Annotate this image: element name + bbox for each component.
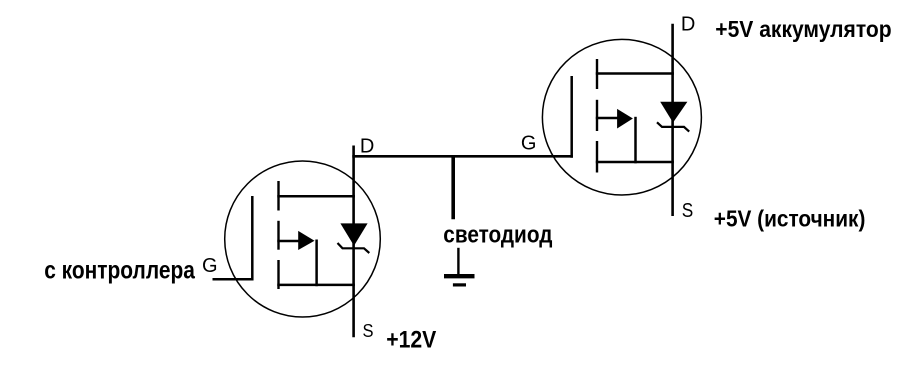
svg-text:светодиод: светодиод [443, 221, 552, 248]
svg-text:+5V (источник): +5V (источник) [714, 205, 866, 231]
svg-text:G: G [202, 255, 218, 277]
svg-text:S: S [363, 320, 374, 341]
svg-text:с контроллера: с контроллера [44, 257, 196, 285]
svg-text:+5V аккумулятор: +5V аккумулятор [715, 16, 891, 42]
svg-text:D: D [681, 14, 695, 36]
svg-text:D: D [360, 135, 374, 157]
svg-text:S: S [682, 200, 694, 222]
svg-text:G: G [521, 133, 537, 155]
svg-text:+12V: +12V [386, 327, 436, 354]
